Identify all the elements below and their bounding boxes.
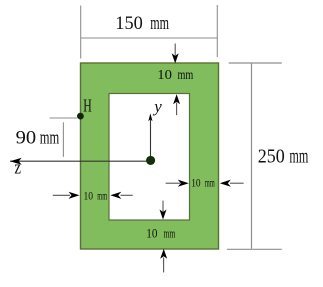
svg-text:H: H <box>83 95 92 115</box>
svg-text:mm: mm <box>97 188 107 202</box>
svg-text:10: 10 <box>84 188 94 202</box>
svg-text:10: 10 <box>157 67 172 82</box>
svg-text:150: 150 <box>115 13 143 34</box>
svg-text:y: y <box>152 97 162 116</box>
svg-text:mm: mm <box>178 67 194 82</box>
svg-text:10: 10 <box>146 226 157 240</box>
svg-text:mm: mm <box>205 177 215 190</box>
svg-text:10: 10 <box>191 177 201 190</box>
svg-text:mm: mm <box>289 146 308 168</box>
svg-text:z: z <box>14 158 21 179</box>
svg-text:mm: mm <box>164 226 176 240</box>
svg-text:90: 90 <box>16 127 37 148</box>
svg-text:mm: mm <box>150 13 169 34</box>
svg-text:250: 250 <box>258 146 285 168</box>
svg-text:mm: mm <box>40 127 60 148</box>
